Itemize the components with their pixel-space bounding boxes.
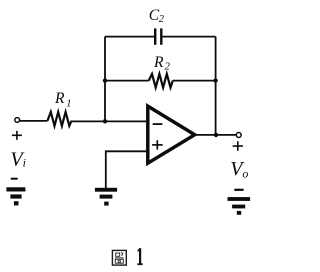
resistor R2 — [149, 74, 173, 88]
node junction dot right R2 — [213, 78, 217, 82]
wire inverting input segment — [72, 120, 149, 122]
wire right vertical (feedback to output node) — [215, 37, 217, 135]
svg-text:2: 2 — [165, 61, 171, 72]
ground (Vi return) — [6, 187, 25, 205]
wire R2 branch right segment — [173, 80, 216, 82]
node junction dot inverting input — [103, 119, 107, 123]
output terminal Vo — [236, 133, 241, 138]
wire left vertical (inverting node to feedback) — [104, 37, 106, 122]
node junction dot left R2 — [103, 78, 107, 82]
wire output segment — [195, 134, 237, 136]
op-amp minus pin mark — [153, 123, 163, 125]
caption figure glyph (圖) — [112, 250, 126, 265]
label plus polarity Vo — [233, 141, 243, 151]
op-amp plus pin mark — [152, 140, 163, 149]
ground (op-amp non-inverting input) — [95, 188, 117, 206]
op-amp U1 — [148, 106, 195, 163]
svg-text:2: 2 — [159, 14, 165, 25]
wire R2 branch left segment — [105, 80, 149, 82]
svg-text:i: i — [23, 155, 26, 169]
label plus polarity Vi — [12, 131, 22, 140]
ground (Vo return) — [228, 197, 251, 215]
svg-text:o: o — [242, 166, 248, 180]
svg-text:1: 1 — [66, 99, 71, 110]
capacitor C2 — [155, 28, 161, 44]
svg-text:R: R — [54, 90, 65, 107]
wire top feedback right segment (C2 branch) — [162, 36, 215, 38]
label minus polarity Vi — [11, 178, 18, 180]
wire non-inverting input — [106, 151, 148, 188]
caption figure number 1 — [137, 248, 142, 264]
input terminal Vi — [15, 118, 20, 123]
resistor R1 — [48, 112, 72, 126]
wire top feedback left segment (C2 branch) — [105, 36, 154, 38]
wire input line (terminal through R1 to inverting input) — [20, 120, 48, 122]
node junction dot output — [214, 133, 218, 137]
label minus polarity Vo — [234, 189, 243, 191]
svg-text:R: R — [153, 54, 164, 71]
